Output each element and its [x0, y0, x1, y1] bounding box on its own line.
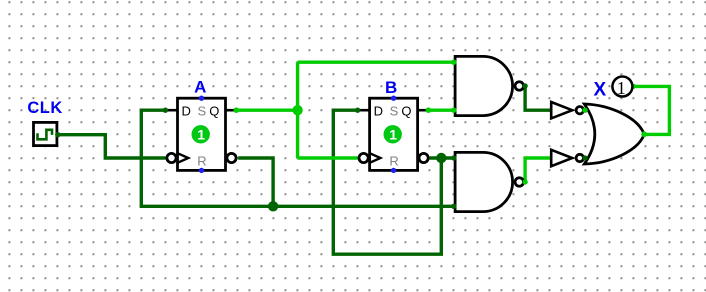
- wire to FF B clock: [298, 156, 358, 159]
- svg-text:1: 1: [389, 127, 397, 143]
- wire bottom bus to NAND2 input: [273, 205, 454, 208]
- pin dot OR out: [641, 131, 647, 137]
- pin dot D_B: [355, 108, 360, 113]
- NAND gate bottom: [455, 152, 523, 211]
- output pin X circle: [612, 77, 632, 97]
- wire OR output to pin X: [633, 86, 669, 134]
- junction Q_A node: [292, 105, 302, 115]
- svg-text:D: D: [374, 103, 383, 118]
- svg-text:B: B: [385, 78, 397, 97]
- clock bubble A: [167, 153, 176, 162]
- clock triangle B: [370, 153, 381, 163]
- svg-text:A: A: [194, 77, 206, 96]
- wire CLK to FF A clock: [58, 135, 166, 158]
- pin dot CLK output: [55, 132, 60, 137]
- svg-text:1: 1: [617, 78, 626, 98]
- clock triangle A: [178, 153, 189, 163]
- pin dot NAND2 in1: [451, 155, 456, 160]
- pin dot NAND2 out: [522, 179, 527, 184]
- pin dot Q_A: [234, 107, 240, 113]
- svg-text:Q: Q: [401, 103, 411, 118]
- wire junction vertical: [296, 62, 299, 158]
- flip-flop B body: [359, 96, 428, 174]
- clock bubble B: [359, 153, 368, 162]
- pin dot NOT2 out: [582, 155, 587, 160]
- pin dot NAND1 in2: [451, 108, 456, 113]
- pin R blue dot A: [199, 168, 204, 173]
- wire Q_A to junction: [236, 108, 297, 111]
- svg-text:S: S: [390, 103, 399, 118]
- wire NAND1 output to NOT1: [525, 86, 551, 110]
- wire Q-bar B junction to NAND2: [430, 156, 454, 159]
- clock generator CLK: [34, 122, 57, 145]
- junction bottom bus node: [268, 201, 278, 211]
- NAND gate top: [455, 56, 523, 115]
- svg-text:CLK: CLK: [27, 99, 62, 117]
- wire NAND2 output to NOT2: [525, 158, 551, 182]
- svg-text:R: R: [197, 154, 206, 169]
- stub D_B: [357, 109, 369, 112]
- NOT gate bottom: [551, 150, 583, 166]
- svg-text:R: R: [389, 154, 398, 169]
- pin dot Q_B: [426, 107, 432, 113]
- svg-text:S: S: [197, 103, 206, 118]
- pin dot D_A: [163, 108, 168, 113]
- junction Q-bar B node: [436, 153, 446, 163]
- wire top to NAND1 input1: [298, 61, 454, 64]
- stub D_A: [165, 109, 177, 112]
- pin S blue dot A: [199, 96, 204, 101]
- pin S blue dot B: [391, 96, 396, 101]
- state circle B: [384, 125, 402, 143]
- flip-flop A body: [167, 96, 236, 174]
- pin dot NAND1 out: [522, 83, 527, 88]
- pin dot NAND2 in2: [451, 204, 456, 209]
- wire Q-bar B loop to D_B: [333, 110, 441, 254]
- pin R blue dot B: [391, 168, 396, 173]
- state circle A: [192, 125, 210, 143]
- wire Q_B to NAND1 input2: [428, 108, 453, 111]
- stub Q_B: [418, 109, 429, 112]
- pin dot NAND1 in1: [451, 60, 456, 65]
- svg-text:Q: Q: [209, 103, 219, 118]
- OR gate: [584, 104, 644, 164]
- pin dot X input: [631, 84, 636, 89]
- svg-text:1: 1: [197, 127, 205, 143]
- svg-text:D: D: [182, 103, 191, 118]
- pin dot NOT1 out: [582, 108, 587, 113]
- NOT gate top: [551, 102, 583, 118]
- wire Q-bar A to junction: [238, 158, 273, 206]
- Q-bar bubble A: [227, 153, 236, 162]
- svg-text:X: X: [593, 80, 606, 101]
- Q-bar bubble B: [419, 153, 428, 162]
- stub Q_A: [226, 109, 237, 112]
- wire D_A feedback net: [141, 110, 273, 206]
